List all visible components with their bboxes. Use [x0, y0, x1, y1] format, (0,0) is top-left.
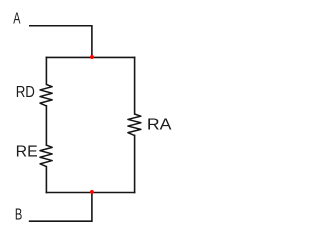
wire right branch upper segment — [134, 57, 136, 114]
svg-text:RD: RD — [16, 84, 35, 101]
svg-text:RE: RE — [16, 144, 38, 161]
junction bottom node — [90, 190, 94, 194]
junction top node — [90, 55, 94, 59]
svg-text:RA: RA — [147, 117, 172, 134]
wire bottom junction to B terminal — [30, 193, 92, 222]
wire right branch lower segment — [134, 135, 136, 192]
wire top rail — [46, 56, 134, 58]
resistor RE — [40, 145, 52, 166]
wire bottom rail — [46, 192, 134, 194]
resistor RA — [128, 114, 141, 135]
svg-text:A: A — [13, 11, 21, 28]
wire left branch upper segment — [45, 57, 47, 84]
resistor RD — [40, 85, 52, 106]
wire left branch middle segment — [45, 106, 47, 145]
wire A terminal to top junction — [30, 26, 92, 58]
svg-text:B: B — [15, 207, 22, 224]
wire left branch lower segment — [45, 167, 47, 193]
